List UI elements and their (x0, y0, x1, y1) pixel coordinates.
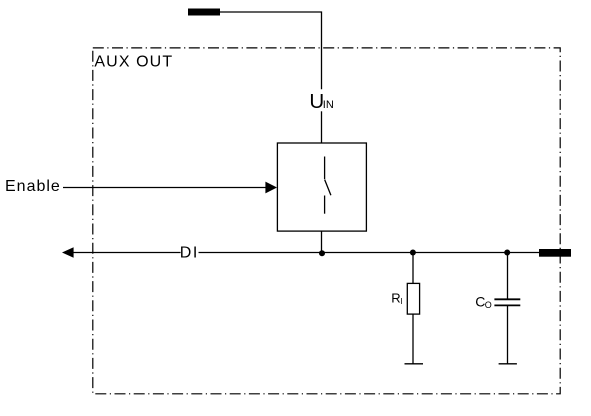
svg-text:R: R (391, 291, 400, 306)
svg-text:O: O (485, 300, 492, 310)
svg-text:DI: DI (180, 245, 199, 262)
svg-text:Enable: Enable (5, 178, 61, 195)
svg-text:IN: IN (323, 99, 334, 111)
svg-text:AUX OUT: AUX OUT (94, 53, 173, 70)
svg-text:I: I (400, 297, 402, 306)
